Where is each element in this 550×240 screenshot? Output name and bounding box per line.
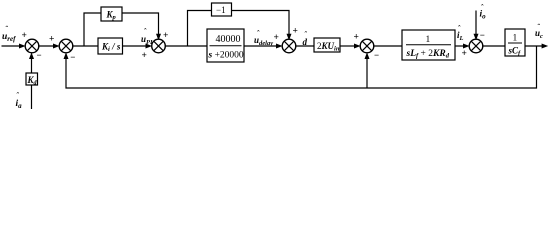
svg-text:+: + bbox=[354, 32, 359, 42]
wire feedback tap up into S5 bbox=[365, 52, 370, 88]
node i_L label bbox=[457, 24, 464, 42]
summer S2 bbox=[59, 39, 73, 53]
wire Kp output down into S3 bbox=[122, 13, 161, 40]
svg-text:−: − bbox=[480, 30, 485, 40]
svg-text:+: + bbox=[142, 51, 147, 61]
wire tap up through block N1 and down into S4 bbox=[188, 11, 212, 47]
svg-text:ˆ: ˆ bbox=[304, 30, 307, 39]
node i_o input label bbox=[480, 3, 487, 21]
svg-text:ˆ: ˆ bbox=[481, 3, 484, 12]
svg-text:Ki / s: Ki / s bbox=[101, 42, 121, 54]
svg-text:+: + bbox=[22, 31, 27, 41]
svg-text:ˆ: ˆ bbox=[537, 23, 540, 32]
node u_PI label bbox=[141, 27, 153, 46]
wire N1 output down into S4 bbox=[232, 11, 292, 41]
node i_a input label bbox=[16, 91, 23, 110]
svg-text:ˆ: ˆ bbox=[257, 29, 260, 38]
node u_c output label bbox=[535, 23, 543, 41]
svg-text:sLf + 2KRd: sLf + 2KRd bbox=[406, 49, 450, 60]
svg-text:+: + bbox=[293, 27, 298, 37]
svg-text:s +20000: s +20000 bbox=[208, 51, 244, 61]
node d label bbox=[303, 30, 308, 47]
block G3 (1/(sLf+2KRd)) bbox=[402, 30, 455, 60]
wire S3 to block G1 bbox=[165, 45, 207, 47]
wire G2 output into S5 bbox=[340, 44, 361, 49]
block G4 (1/(sCf)) bbox=[505, 29, 525, 57]
svg-text:ˆ: ˆ bbox=[16, 91, 19, 100]
wire S5 to block G3 bbox=[373, 45, 402, 47]
wire feedback from u_c node down and across bottom to S2 bbox=[64, 46, 537, 88]
block Kd bbox=[26, 73, 38, 87]
summer S5 bbox=[360, 39, 374, 53]
wire G4 output u_c arrow bbox=[525, 44, 548, 49]
wire Ki/s output into S3 bbox=[123, 44, 153, 49]
block Kp bbox=[101, 7, 122, 21]
svg-text:+: + bbox=[163, 31, 168, 41]
svg-text:−1: −1 bbox=[216, 5, 226, 15]
wire Kd up into S1 bbox=[29, 52, 34, 73]
block Ki/s bbox=[98, 38, 123, 54]
block N1 (-1) bbox=[212, 3, 232, 16]
svg-text:1: 1 bbox=[426, 35, 431, 45]
wire i_a up into block Kd bbox=[31, 85, 33, 109]
summer S4 bbox=[282, 39, 296, 53]
svg-text:ˆ: ˆ bbox=[458, 24, 461, 33]
svg-text:+: + bbox=[274, 33, 279, 43]
svg-text:ˆ: ˆ bbox=[144, 27, 147, 36]
summer S1 bbox=[25, 39, 39, 53]
svg-text:40000: 40000 bbox=[216, 34, 241, 45]
wire G1 output into S4 bbox=[244, 44, 283, 49]
svg-text:−: − bbox=[37, 50, 42, 60]
wire u_ref input arrow into summer S1 bbox=[2, 44, 26, 49]
summer S3 bbox=[152, 39, 166, 53]
svg-text:+: + bbox=[462, 49, 467, 59]
svg-text:1: 1 bbox=[513, 34, 518, 44]
block G2 (2KU_in) bbox=[314, 38, 340, 53]
wire i_o down into S6 bbox=[474, 11, 479, 41]
block G1 (40000/(s+20000)) bbox=[207, 29, 244, 62]
wire S4 to block G2 bbox=[295, 45, 314, 47]
summer S6 bbox=[469, 39, 483, 53]
wire S1 to S2 bbox=[38, 44, 59, 49]
wire G3 output into S6 bbox=[455, 44, 470, 49]
svg-text:−: − bbox=[374, 50, 379, 60]
wire S2 to Ki/s bbox=[72, 45, 98, 47]
node u_ref input label bbox=[2, 25, 16, 44]
svg-text:+: + bbox=[49, 35, 54, 45]
node u_delay label bbox=[254, 29, 273, 47]
wire S6 to block G4 bbox=[482, 45, 505, 47]
svg-text:−: − bbox=[70, 52, 75, 62]
svg-text:ˆ: ˆ bbox=[5, 25, 8, 34]
wire branch up to Kp bbox=[84, 13, 101, 46]
